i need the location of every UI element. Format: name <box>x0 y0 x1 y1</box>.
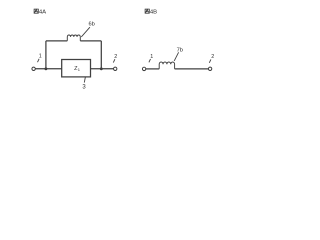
svg-text:7b: 7b <box>177 48 183 54</box>
label 7b with leader <box>174 48 183 61</box>
inductor 6b <box>67 35 80 41</box>
wire terminal1 to inductor (fig 4B) <box>146 68 159 70</box>
svg-text:6b: 6b <box>89 22 95 28</box>
node junction right (fig 4A) <box>100 67 103 70</box>
wire right riser of top branch <box>100 41 102 69</box>
wire left riser of top branch <box>45 41 47 69</box>
figure label 図4A <box>34 9 46 15</box>
wire box Z1 to terminal 2 <box>91 68 114 70</box>
inductor 7b <box>159 62 174 69</box>
label 2 with tick (fig 4A) <box>113 54 117 62</box>
wire top-right horizontal <box>80 40 101 42</box>
svg-text:2: 2 <box>211 54 214 60</box>
node junction left (fig 4A) <box>44 67 47 70</box>
label 1 with tick (fig 4B) <box>149 54 153 62</box>
svg-text:3: 3 <box>82 84 86 90</box>
svg-text:4A: 4A <box>39 9 46 15</box>
svg-text:1: 1 <box>39 54 42 60</box>
label 3 with leader (box designator) <box>82 77 86 90</box>
label 6b with leader <box>81 22 95 37</box>
terminal 1 (fig 4A) <box>32 67 35 70</box>
svg-text:4B: 4B <box>150 9 157 15</box>
wire inductor to terminal 2 (fig 4B) <box>175 68 209 70</box>
figure label 図4B <box>145 9 157 15</box>
terminal 2 (fig 4B) <box>208 67 211 70</box>
impedance box Z1 <box>62 60 91 77</box>
label 2 with tick (fig 4B) <box>209 54 214 63</box>
wire top-left horizontal <box>46 40 67 42</box>
label 1 with tick (fig 4A) <box>38 54 42 63</box>
terminal 2 (fig 4A) <box>114 67 117 70</box>
wire terminal1 to box Z1 <box>36 68 62 70</box>
terminal 1 (fig 4B) <box>142 67 145 70</box>
